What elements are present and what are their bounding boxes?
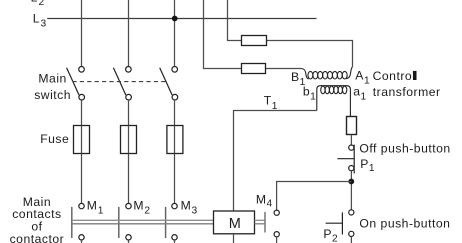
contact M4 (holding) bbox=[274, 210, 279, 215]
wire phase 1 middle bbox=[81, 100, 83, 204]
linkage double line left bbox=[72, 219, 214, 221]
armature bar M3 bbox=[165, 207, 167, 238]
main contact M3 bbox=[172, 203, 177, 208]
svg-text:On push-button: On push-button bbox=[359, 217, 450, 231]
wire control tap 1 (to fuse F5, transformer B1) bbox=[204, 0, 302, 69]
svg-text:Fuse: Fuse bbox=[40, 132, 69, 146]
wire through fuse F3 bbox=[174, 126, 176, 154]
off push-button P1 (NC) bbox=[337, 145, 354, 174]
fuse F3 bbox=[167, 126, 183, 154]
wire through fuse F1 bbox=[81, 126, 83, 154]
wire off button to junction bbox=[350, 171, 352, 210]
wire T1 secondary to contactor coil bbox=[234, 111, 317, 212]
main switch linkage (dashed) bbox=[72, 81, 166, 83]
fuse F4 bbox=[242, 36, 267, 46]
svg-text:Control: Control bbox=[373, 69, 416, 83]
wire phase 2 vertical top bbox=[128, 0, 130, 67]
fuse F6 (control circuit) bbox=[347, 117, 357, 135]
svg-text:Off push-button: Off push-button bbox=[359, 142, 450, 156]
main contact M1 bbox=[79, 203, 84, 208]
wire phase 3 middle bbox=[174, 100, 176, 204]
main switch pole 1 bbox=[67, 67, 85, 100]
wire on button bottom stub bbox=[350, 237, 352, 243]
wire M4 bottom stub bbox=[276, 237, 278, 243]
armature bar M2 bbox=[118, 207, 120, 238]
contactor coil M bbox=[214, 211, 255, 234]
linkage double line right bbox=[255, 219, 266, 221]
transformer T1 secondary winding bbox=[317, 86, 351, 117]
armature bar M4 bbox=[264, 212, 266, 233]
wire L3 horizontal bbox=[47, 18, 316, 20]
on push-button P2 (NO) bbox=[326, 210, 354, 237]
wire through fuse F2 bbox=[128, 126, 130, 154]
svg-text:contactor: contactor bbox=[10, 232, 65, 243]
main contact M2 bbox=[126, 203, 131, 208]
fuse F2 bbox=[121, 126, 137, 154]
main switch pole 2 bbox=[113, 67, 131, 100]
main switch pole 3 bbox=[160, 67, 178, 100]
junction dot holding circuit bbox=[348, 179, 354, 185]
wire phase 1 vertical top bbox=[81, 0, 83, 67]
transformer T1 primary winding bbox=[301, 67, 353, 79]
fuse F5 bbox=[242, 64, 266, 74]
junction dot L3 / phase 3 bbox=[172, 16, 178, 22]
svg-text:M: M bbox=[229, 216, 241, 232]
svg-text:Main: Main bbox=[38, 72, 66, 86]
svg-text:switch: switch bbox=[34, 88, 71, 102]
wire phase 2 middle bbox=[128, 100, 130, 204]
wire phase 3 vertical top bbox=[174, 0, 176, 67]
armature bar M1 bbox=[71, 207, 73, 238]
wire coil bottom stub bbox=[233, 234, 235, 243]
svg-text:transformer: transformer bbox=[373, 85, 441, 99]
wire control tap 2 (to fuse F4, transformer A1) bbox=[228, 0, 353, 67]
fuse F1 bbox=[74, 126, 90, 154]
wire junction to M4 contact bbox=[277, 182, 352, 211]
wire F6 to off push-button bbox=[350, 135, 352, 146]
